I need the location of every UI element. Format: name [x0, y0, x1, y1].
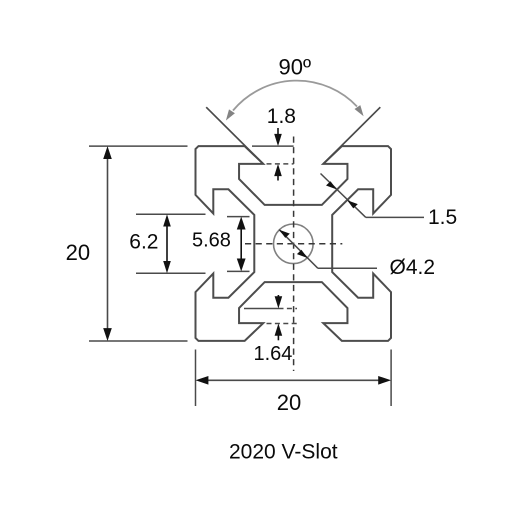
- svg-text:20: 20: [277, 390, 301, 415]
- vertical center line (dashed): [293, 137, 295, 372]
- dim 6.2 top extension line: [136, 213, 206, 215]
- dim 1.8 top arrow: [277, 128, 279, 141]
- dim 1.64 top arrow: [277, 295, 279, 303]
- svg-text:20: 20: [66, 240, 90, 265]
- dim 1.5 arrow upper (points down-right to slot wall): [326, 181, 337, 189]
- dim 6.2 arrows: [166, 224, 168, 264]
- dim 1.8 bottom arrow: [274, 164, 282, 176]
- dim 1.8 lip dashed extension: [267, 163, 294, 165]
- horizontal center line (dashed): [245, 243, 342, 245]
- dim 5.68 bottom extension line: [227, 270, 250, 272]
- dim 1.5 arrow lower (points up-left to slot wall): [347, 200, 358, 208]
- left 20: bottom extension line: [89, 340, 188, 342]
- center bore circle: [274, 224, 314, 264]
- svg-text:2020 V-Slot: 2020 V-Slot: [229, 441, 338, 464]
- extrusion profile outline: [196, 146, 392, 341]
- dia 4.2 leader: [279, 230, 318, 269]
- dim 6.2 bottom extension line: [136, 272, 206, 274]
- dim 5.68 top extension line: [227, 216, 250, 218]
- bottom 20: dimension line: [199, 379, 387, 381]
- dim 1.5 leader: [321, 174, 366, 218]
- svg-text:5.68: 5.68: [192, 230, 231, 252]
- svg-text:1.5: 1.5: [428, 206, 457, 229]
- arc arrowhead left: [226, 109, 235, 120]
- dia 4.2 arrow upper-left: [279, 230, 290, 238]
- right V construction line: [323, 107, 380, 164]
- svg-text:Ø4.2: Ø4.2: [390, 256, 436, 279]
- svg-text:90º: 90º: [279, 54, 312, 79]
- left 20: top extension line: [89, 145, 188, 147]
- dim 1.64 upper reference line: [244, 308, 279, 310]
- arc arrowhead right: [355, 105, 364, 116]
- bottom 20: right extension line: [390, 350, 392, 407]
- dia 4.2 arrow lower-right: [297, 250, 308, 258]
- bottom 20: left extension line: [195, 350, 197, 407]
- svg-text:6.2: 6.2: [129, 230, 158, 253]
- left V construction line: [206, 107, 263, 164]
- svg-text:1.8: 1.8: [267, 105, 296, 128]
- left 20: dimension line: [107, 150, 109, 337]
- dim 1.64 lip dashed extension: [267, 323, 298, 325]
- dim 1.8 face extension line: [252, 145, 294, 147]
- dim 5.68 arrows: [240, 226, 242, 262]
- 90 degree arc: [233, 81, 357, 111]
- svg-text:1.64: 1.64: [254, 343, 293, 365]
- dim 1.64 bottom arrow: [275, 324, 283, 336]
